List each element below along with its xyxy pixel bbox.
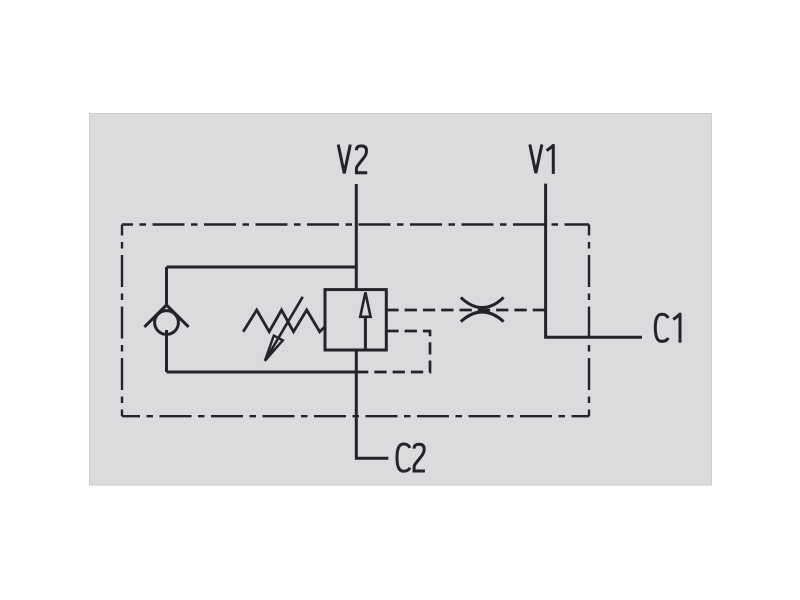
relief valve V: flow arrow head (360, 292, 370, 316)
valve body boundary: left side (121, 225, 123, 417)
relief valve V: flow arrow shaft (364, 317, 367, 351)
label V2 (338, 145, 367, 174)
wire: bottom branch from check valve (167, 371, 357, 374)
relief valve V: envelope box (325, 290, 386, 350)
pilot feedback loop (dashed) (356, 331, 430, 372)
valve body boundary: bottom side (122, 415, 589, 417)
check valve CV1: ball (155, 311, 179, 335)
label C2 (397, 444, 425, 471)
valve body boundary: right side (588, 225, 590, 417)
port V1 line and C1 line (546, 184, 642, 338)
check valve CV1: seat (144, 305, 188, 327)
check valve CV1: outlet stub (165, 330, 168, 372)
port C2 line (356, 350, 388, 458)
valve body boundary (dash-dot enclosure) (122, 223, 589, 225)
relief valve V: adjustment arrow shaft (265, 297, 303, 361)
relief valve V: adjustment arrow head (265, 336, 283, 361)
orifice O1: lower arc (461, 312, 504, 322)
label V1 (530, 144, 554, 174)
orifice O1: upper arc (461, 297, 504, 307)
relief valve V: spring (243, 310, 325, 332)
port V2 line (355, 184, 358, 290)
check valve CV1: inlet stub (165, 267, 168, 305)
wire: top branch to check valve (167, 266, 357, 269)
pilot line to V1 (dashed) (386, 309, 545, 312)
label C1 (655, 313, 680, 343)
background panel (90, 114, 712, 486)
